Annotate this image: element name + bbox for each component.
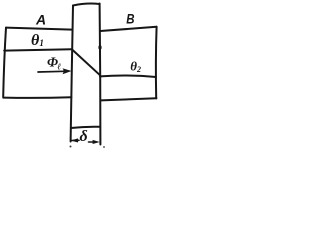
delta left arrowhead [71, 138, 78, 142]
svg-text:δ: δ [80, 128, 88, 145]
theta2 temperature level line [100, 76, 156, 77]
scan speck left of dimension [70, 146, 72, 148]
svg-text:Φℓ: Φℓ [47, 56, 61, 72]
svg-text:θ1: θ1 [31, 32, 44, 49]
delta dimension left arrow shaft [71, 139, 79, 141]
wall bottom edge [71, 127, 100, 128]
ink blotch on wall right edge [98, 45, 101, 49]
wall right edge [99, 4, 102, 145]
wall left edge [71, 6, 73, 142]
heat flux arrowhead [63, 68, 72, 74]
region A bottom line [3, 96, 71, 99]
delta right arrowhead [93, 140, 100, 144]
svg-text:B: B [126, 10, 134, 26]
region B bottom line [101, 98, 156, 100]
theta1 temperature level line [4, 49, 72, 50]
region B top line [100, 27, 156, 31]
scan speck right of dimension [103, 146, 105, 148]
svg-text:A: A [35, 12, 46, 28]
wall top edge [73, 4, 100, 6]
delta dimension right arrow shaft [89, 141, 95, 143]
svg-text:θ2: θ2 [130, 58, 141, 74]
heat flux arrow shaft [38, 70, 64, 73]
region A top line [6, 28, 72, 30]
temperature profile diagonal [72, 50, 99, 75]
region B right edge [155, 27, 158, 99]
region A left edge [3, 28, 6, 97]
